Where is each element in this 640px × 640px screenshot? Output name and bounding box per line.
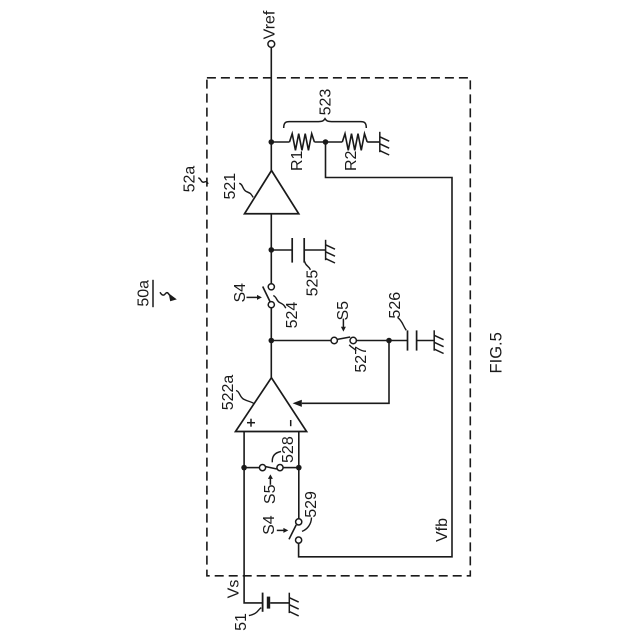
wire 522a plus input down to Vs [244, 432, 262, 603]
wire node to switch 528 [244, 467, 259, 469]
svg-text:R1: R1 [289, 150, 306, 171]
svg-text:522a: 522a [220, 375, 237, 411]
leader 522a [236, 391, 254, 404]
wire node to op-amp 522a output [270, 341, 272, 378]
svg-text:Vref: Vref [261, 10, 278, 39]
wire 521 input down to node [270, 214, 272, 284]
wire Vref to op-amp 521 output [270, 47, 272, 170]
svg-text:S5: S5 [335, 301, 352, 321]
wire capacitor 526 to ground [417, 340, 435, 342]
ground at 526 [434, 330, 443, 353]
leader 527 [349, 345, 356, 351]
svg-text:Vs: Vs [226, 580, 243, 599]
leader 526 [398, 318, 407, 331]
leader 52a [198, 178, 208, 184]
wire capacitor 525 to ground [304, 249, 325, 251]
switch 527 (S5) [331, 337, 337, 343]
switch 529 (S4) [296, 519, 302, 525]
node junction mid rail [269, 338, 275, 344]
ground at battery [289, 593, 298, 616]
wire switch 528 to right node [283, 467, 299, 469]
node junction left of switch 528 [241, 465, 247, 471]
svg-text:Vfb: Vfb [434, 518, 451, 542]
minus input mark [290, 420, 292, 426]
svg-text:524: 524 [284, 302, 301, 329]
svg-text:528: 528 [280, 436, 297, 463]
svg-text:S4: S4 [261, 515, 278, 535]
leader 529 [302, 518, 312, 532]
svg-text:523: 523 [318, 89, 335, 116]
wire R2 to ground [367, 141, 380, 143]
plus input mark [247, 422, 255, 424]
wire 522a minus input down to switch 529 [298, 432, 300, 519]
leader 524 [273, 296, 286, 309]
squiggle arrow 50a [160, 292, 170, 295]
svg-text:S4: S4 [232, 283, 249, 303]
node junction between R1 and R2 [323, 139, 329, 145]
op-amp U522a [236, 378, 307, 432]
wire node to capacitor 525 [271, 249, 292, 251]
wire R1 to R2 [314, 141, 342, 143]
node junction feedback tap [386, 338, 392, 344]
battery 51 (Vs source) [262, 593, 264, 612]
dashed block boundary 52a [207, 78, 470, 576]
brace 523 over R1 R2 [284, 119, 367, 128]
svg-text:R2: R2 [343, 150, 360, 171]
svg-text:50a: 50a [135, 280, 152, 307]
capacitor 525 [291, 238, 293, 263]
wire switch 527 to capacitor 526 [356, 340, 407, 342]
resistor R2 [342, 134, 367, 151]
svg-text:525: 525 [305, 270, 322, 297]
svg-text:526: 526 [387, 292, 404, 319]
feedback wire into 522a inverting input [302, 341, 389, 404]
ground at R2 [380, 132, 389, 155]
leader 528 [272, 452, 281, 463]
capacitor 526 [407, 330, 409, 350]
wire battery to ground [270, 602, 289, 604]
terminal Vref [268, 41, 275, 48]
wire node to switch 527 [271, 340, 331, 342]
svg-text:S5: S5 [262, 484, 279, 504]
arrowhead into 522a [293, 400, 302, 407]
wire node to R1 [271, 141, 289, 143]
node junction right of switch 528 [296, 465, 302, 471]
switch 528 (S5) [259, 465, 265, 471]
wire switch 524 to node [270, 308, 272, 341]
node junction at capacitor 525 [269, 247, 275, 253]
ground at 525 [326, 240, 335, 263]
svg-text:521: 521 [222, 173, 239, 200]
op-amp U521 [245, 171, 299, 214]
feedback wire from R1/R2 node to right rail and bottom [299, 142, 452, 557]
node junction at Vref/R1 [269, 139, 275, 145]
svg-text:FIG.5: FIG.5 [488, 332, 506, 373]
leader 521 [239, 183, 253, 197]
svg-text:51: 51 [233, 613, 250, 631]
leader 525 [305, 262, 311, 270]
resistor R1 [290, 134, 315, 151]
switch 524 (S4) [268, 284, 274, 290]
svg-text:529: 529 [303, 491, 320, 518]
leader 51 [249, 608, 261, 616]
svg-text:52a: 52a [182, 166, 199, 193]
